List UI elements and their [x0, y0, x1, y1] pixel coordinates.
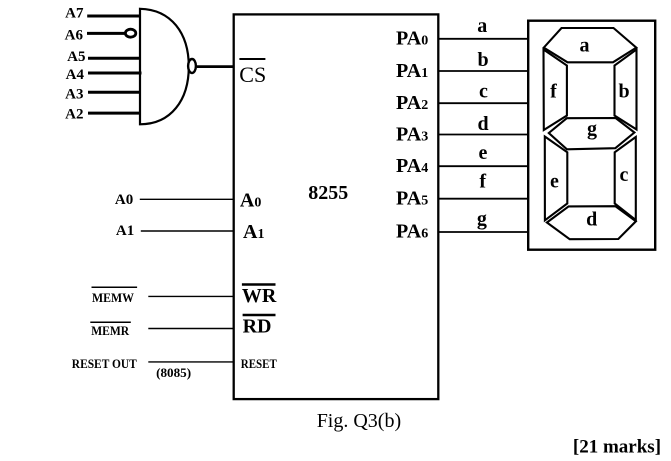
- svg-text:a: a: [580, 35, 590, 57]
- svg-text:PA4: PA4: [396, 155, 428, 177]
- svg-text:A4: A4: [66, 67, 85, 83]
- svg-text:A3: A3: [65, 87, 83, 103]
- svg-text:f: f: [479, 171, 486, 193]
- svg-text:MEMW: MEMW: [92, 290, 134, 305]
- svg-text:e: e: [550, 171, 559, 193]
- svg-text:RD: RD: [243, 315, 272, 337]
- svg-text:CS: CS: [239, 62, 266, 87]
- svg-text:PA5: PA5: [396, 188, 428, 210]
- svg-text:A7: A7: [65, 6, 84, 22]
- svg-text:MEMR: MEMR: [91, 323, 130, 338]
- svg-text:PA6: PA6: [396, 221, 428, 243]
- svg-text:8255: 8255: [308, 182, 348, 204]
- svg-text:WR: WR: [242, 285, 277, 307]
- svg-text:b: b: [618, 81, 629, 103]
- svg-text:e: e: [479, 142, 488, 164]
- svg-text:RESET: RESET: [241, 356, 277, 371]
- svg-text:A0: A0: [240, 190, 261, 212]
- svg-text:Fig. Q3(b): Fig. Q3(b): [317, 410, 401, 432]
- svg-text:PA3: PA3: [396, 123, 428, 145]
- svg-text:c: c: [479, 80, 488, 102]
- svg-text:(8085): (8085): [156, 365, 191, 380]
- svg-text:f: f: [550, 81, 557, 103]
- svg-text:[21 marks]: [21 marks]: [573, 437, 661, 458]
- svg-text:RESET OUT: RESET OUT: [72, 356, 137, 371]
- svg-text:a: a: [477, 15, 487, 37]
- svg-text:A0: A0: [115, 192, 133, 208]
- svg-text:g: g: [587, 118, 597, 140]
- svg-text:PA1: PA1: [396, 60, 428, 82]
- svg-text:A1: A1: [243, 221, 264, 243]
- svg-text:A6: A6: [65, 28, 84, 44]
- svg-text:b: b: [477, 49, 488, 71]
- svg-text:g: g: [477, 208, 487, 230]
- svg-text:A2: A2: [65, 106, 83, 122]
- svg-text:PA2: PA2: [396, 92, 428, 114]
- svg-text:A5: A5: [67, 49, 85, 65]
- svg-text:d: d: [586, 209, 597, 231]
- svg-text:c: c: [620, 164, 629, 186]
- svg-text:A1: A1: [116, 223, 134, 239]
- svg-text:PA0: PA0: [396, 28, 428, 50]
- svg-text:d: d: [477, 113, 488, 135]
